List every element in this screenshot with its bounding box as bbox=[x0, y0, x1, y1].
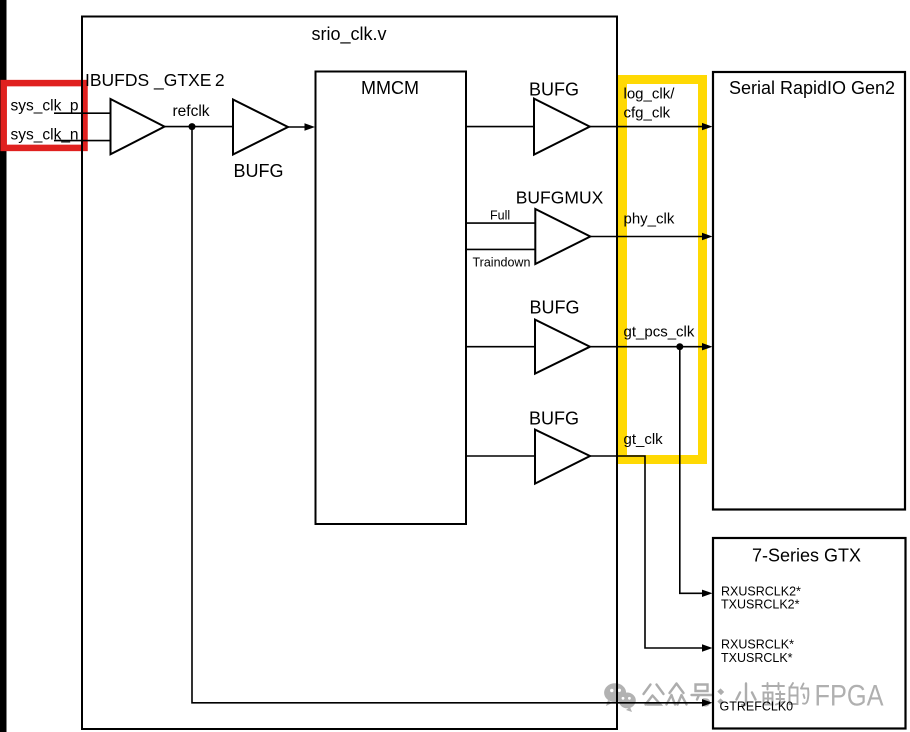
svg-text:RXUSRCLK2*: RXUSRCLK2* bbox=[721, 584, 801, 598]
svg-text:sys_clk_p: sys_clk_p bbox=[11, 97, 79, 114]
buffer BUFG (log_clk) bbox=[534, 99, 590, 155]
svg-text:Traindown: Traindown bbox=[473, 256, 531, 270]
svg-text:log_clk/: log_clk/ bbox=[624, 86, 676, 103]
wire refclk feedback to GTREFCLK0 bbox=[192, 127, 703, 703]
arrow into Serial RapidIO (log_clk) bbox=[702, 123, 713, 130]
svg-text:TXUSRCLK*: TXUSRCLK* bbox=[721, 651, 793, 665]
node refclk junction dot bbox=[189, 123, 196, 130]
wire IBUFDS out to BUFG bbox=[165, 126, 234, 128]
wire MMCM to BUFG gt_pcs_clk bbox=[466, 346, 535, 348]
arrow into GTREFCLK0 bbox=[702, 699, 713, 706]
wire log_clk to Serial RapidIO bbox=[590, 126, 703, 128]
svg-text:srio_clk.v: srio_clk.v bbox=[311, 24, 386, 45]
svg-text:RXUSRCLK*: RXUSRCLK* bbox=[721, 638, 794, 652]
svg-text:Full: Full bbox=[490, 208, 510, 222]
glyph de bbox=[790, 683, 809, 704]
wire BUFG to MMCM bbox=[288, 126, 305, 128]
arrow into Serial RapidIO (gt_pcs_clk) bbox=[702, 343, 713, 350]
svg-text:MMCM: MMCM bbox=[361, 78, 419, 98]
wire gt_pcs_clk to Serial RapidIO bbox=[590, 346, 703, 348]
7-Series GTX box white fill bbox=[713, 538, 906, 729]
wire phy_clk to Serial RapidIO bbox=[590, 236, 703, 238]
wire gt_pcs_clk feedback to RXUSRCLK2 bbox=[680, 347, 703, 594]
glyph hao bbox=[692, 685, 712, 706]
wire MMCM to BUFG log_clk bbox=[466, 126, 534, 128]
svg-text:FPGA: FPGA bbox=[815, 680, 884, 713]
left window edge black bar bbox=[0, 0, 7, 732]
7-Series GTX box bbox=[713, 538, 906, 729]
wire MMCM to BUFG gt_clk bbox=[466, 455, 535, 457]
glyph gong bbox=[644, 685, 664, 705]
buffer BUFG (gt_clk) bbox=[535, 430, 590, 484]
node gt_pcs_clk junction dot bbox=[676, 343, 683, 350]
svg-text:refclk: refclk bbox=[173, 103, 210, 120]
wire MMCM Traindown input to BUFGMUX bbox=[466, 248, 536, 250]
svg-text:cfg_clk: cfg_clk bbox=[624, 105, 671, 122]
svg-text:BUFG: BUFG bbox=[529, 298, 579, 318]
svg-text:phy_clk: phy_clk bbox=[624, 210, 675, 227]
wire sys_clk_n to IBUFDS bbox=[54, 140, 111, 142]
svg-text:BUFG: BUFG bbox=[529, 409, 579, 429]
wire sys_clk_p to IBUFDS bbox=[54, 112, 111, 114]
arrow into MMCM bbox=[305, 123, 316, 130]
buffer BUFG (refclk) bbox=[233, 100, 288, 155]
glyph xiao bbox=[737, 684, 756, 706]
wire gt_clk feedback to RXUSRCLK bbox=[590, 456, 703, 648]
svg-text:BUFGMUX: BUFGMUX bbox=[516, 188, 604, 208]
red highlight box (inputs) bbox=[4, 83, 85, 148]
mux BUFGMUX bbox=[535, 209, 590, 264]
Serial RapidIO Gen2 box bbox=[713, 72, 905, 510]
svg-text:gt_pcs_clk: gt_pcs_clk bbox=[624, 323, 695, 340]
MMCM box bbox=[316, 72, 467, 525]
svg-text:7-Series GTX: 7-Series GTX bbox=[752, 546, 861, 566]
wire MMCM Full input to BUFGMUX bbox=[466, 222, 536, 224]
buffer IBUFDS_GTXE2 bbox=[111, 99, 165, 154]
glyph zhong bbox=[667, 684, 687, 705]
fullwidth colon bbox=[718, 692, 723, 703]
watermark chinese text 公众号：小蘇的FPGA (drawn strokes) bbox=[644, 683, 809, 705]
svg-text:BUFG: BUFG bbox=[529, 79, 579, 99]
glyph su (dense) bbox=[763, 683, 785, 705]
svg-text:GTREFCLK0: GTREFCLK0 bbox=[720, 699, 794, 713]
svg-text:BUFG: BUFG bbox=[233, 161, 283, 181]
module box srio_clk.v bbox=[82, 17, 617, 730]
arrow into RXUSRCLK/TXUSRCLK bbox=[702, 644, 713, 651]
svg-text:IBUFDS _GTXE 2: IBUFDS _GTXE 2 bbox=[85, 70, 225, 91]
svg-text:TXUSRCLK2*: TXUSRCLK2* bbox=[721, 598, 800, 612]
arrow into RXUSRCLK2/TXUSRCLK2 bbox=[702, 590, 713, 597]
yellow highlight box (output clocks) bbox=[623, 80, 703, 460]
arrow into Serial RapidIO (phy_clk) bbox=[702, 233, 713, 240]
buffer BUFG (gt_pcs_clk) bbox=[535, 320, 590, 374]
svg-text:Serial RapidIO Gen2: Serial RapidIO Gen2 bbox=[729, 78, 895, 98]
watermark wechat icon bbox=[604, 683, 636, 712]
svg-text:gt_clk: gt_clk bbox=[624, 431, 664, 448]
